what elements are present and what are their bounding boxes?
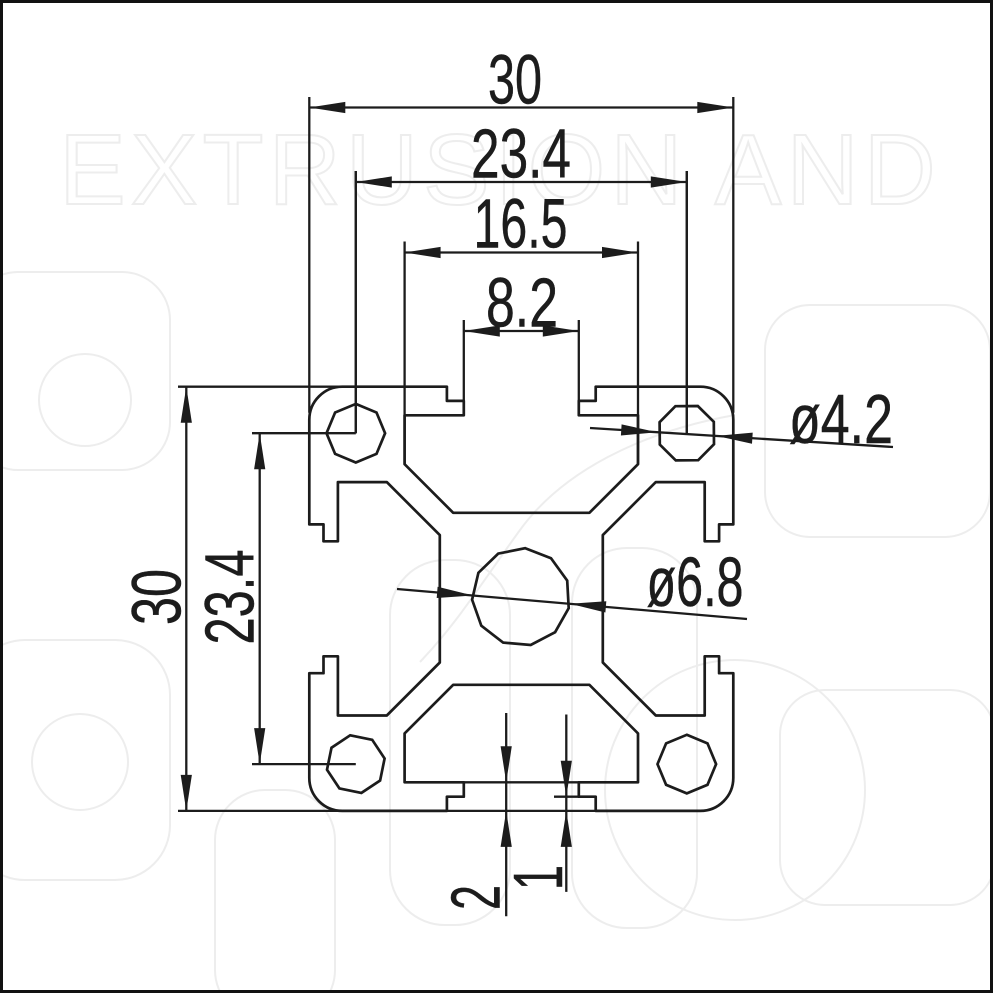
dimension 16.5: dimension line: [405, 251, 638, 253]
dimension 16.5: text: [474, 185, 568, 263]
diameter 6.8 leader line: [397, 589, 747, 619]
dimension 30 top: dimension line: [309, 106, 733, 108]
dimension 30 top: text: [488, 40, 542, 119]
svg-text:23.4: 23.4: [190, 550, 269, 645]
dimension 23.4 left: extension lines: [252, 432, 356, 434]
svg-text:30: 30: [117, 569, 195, 625]
centerline top-left hole vertical: [355, 171, 357, 433]
dimension 1 bottom: text (rotated): [500, 865, 577, 890]
svg-text:ø4.2: ø4.2: [789, 381, 893, 459]
dimension 23.4 top: extension lines: [355, 171, 357, 433]
dimension 30 top: extension lines: [308, 97, 310, 413]
svg-text:23.4: 23.4: [471, 115, 571, 194]
extension line bottom surface across slot opening: [447, 810, 600, 812]
dimension 1 bottom: extension line: [554, 796, 580, 798]
extension line lip underside across bottom slot opening: [405, 781, 638, 783]
svg-text:1: 1: [500, 865, 577, 890]
diameter 4.2 text: [789, 381, 893, 459]
corner hole top-right: [660, 406, 714, 460]
centerline top-right hole vertical: [686, 171, 688, 433]
dimension 2 bottom: dimension line: [505, 713, 507, 916]
svg-text:ø6.8: ø6.8: [646, 542, 743, 621]
dimension 8.2: extension lines: [463, 320, 465, 401]
corner hole top-left: [327, 404, 386, 463]
dimension 30 left: dimension line: [185, 387, 187, 811]
dimension 23.4 left: dimension line: [259, 433, 261, 764]
svg-text:16.5: 16.5: [474, 185, 568, 263]
dimension 30 left: text (rotated): [117, 569, 195, 625]
dimension 30 left: extension lines: [178, 386, 343, 388]
dimension 16.5: extension lines: [403, 242, 405, 465]
dimension 2 bottom: text (rotated): [438, 885, 515, 910]
svg-text:8.2: 8.2: [486, 264, 558, 342]
diameter 4.2 leader line: [590, 428, 893, 447]
dimension 23.4 left: text (rotated): [190, 550, 269, 645]
svg-text:30: 30: [488, 40, 542, 119]
dimension 23.4 top: dimension line: [356, 181, 687, 183]
dimension 8.2: text: [486, 264, 558, 342]
dimension 23.4 top: text: [471, 115, 571, 194]
dimension 1 bottom: dimension line: [565, 715, 567, 892]
center hole: [472, 548, 569, 645]
extrusion profile outline: [309, 387, 733, 811]
diameter 6.8 text: [646, 542, 743, 621]
corner hole bottom-left: [327, 735, 385, 793]
corner hole bottom-right: [658, 735, 717, 794]
dimension 8.2: dimension line: [464, 330, 579, 332]
